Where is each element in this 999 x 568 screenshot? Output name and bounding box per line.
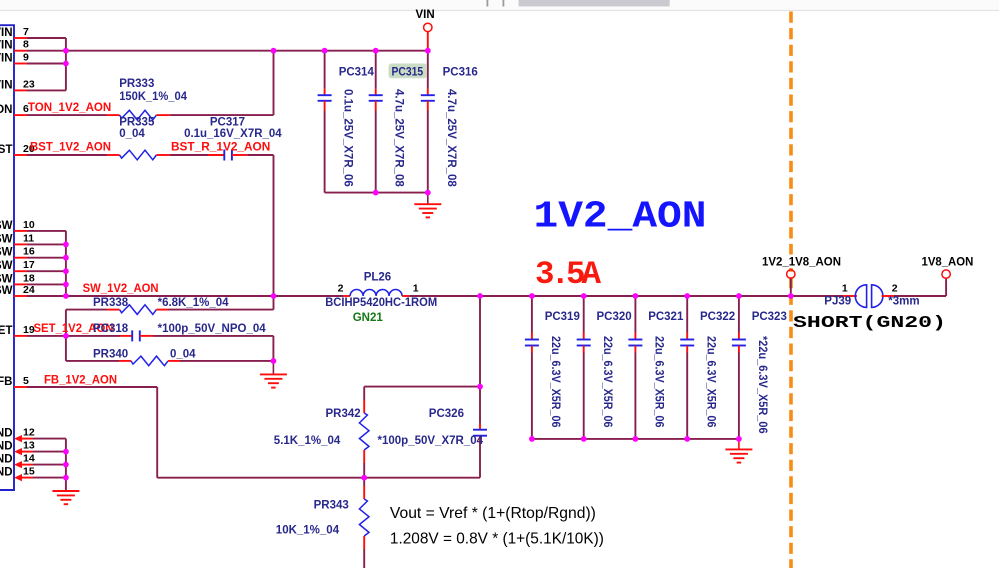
svg-text:10: 10 [23,219,35,231]
svg-text:*3mm: *3mm [888,296,919,308]
svg-text:PC323: PC323 [752,311,787,323]
svg-text:0.1u_16V_X7R_04: 0.1u_16V_X7R_04 [184,128,282,140]
svg-text:3.5A: 3.5A [535,256,601,293]
svg-text:PC320: PC320 [597,311,632,323]
svg-text:GND: GND [0,454,13,466]
svg-text:PC318: PC318 [93,323,129,335]
svg-text:11: 11 [23,232,34,244]
svg-text:PL26: PL26 [364,271,392,283]
svg-text:VIN: VIN [0,40,13,52]
svg-text:16: 16 [23,246,35,258]
svg-text:PR338: PR338 [93,297,129,309]
svg-text:24: 24 [23,284,35,296]
svg-text:BST_R_1V2_AON: BST_R_1V2_AON [171,142,270,154]
svg-text:PC315: PC315 [392,67,424,79]
svg-text:*100p_50V_NPO_04: *100p_50V_NPO_04 [158,323,267,335]
svg-text:PC321: PC321 [648,311,684,323]
svg-text:8: 8 [23,39,29,51]
svg-text:SET: SET [0,325,13,337]
svg-text:PC316: PC316 [443,67,478,79]
svg-text:VIN: VIN [0,27,13,39]
svg-text:PR333: PR333 [119,78,154,90]
svg-text:22u_6.3V_X5R_06: 22u_6.3V_X5R_06 [549,336,561,428]
svg-text:10K_1%_04: 10K_1%_04 [276,525,340,537]
svg-text:*100p_50V_X7R_04: *100p_50V_X7R_04 [378,435,484,447]
svg-text:TON: TON [0,104,13,116]
svg-text:1V8_AON: 1V8_AON [922,256,974,268]
svg-text:1V2_AON: 1V2_AON [534,196,707,239]
svg-text:PR342: PR342 [326,408,361,420]
svg-text:PC317: PC317 [210,116,245,128]
svg-text:1V2_1V8_AON: 1V2_1V8_AON [762,256,841,268]
svg-text:SW: SW [0,220,13,232]
svg-text:PR343: PR343 [314,500,349,512]
svg-text:7: 7 [23,26,29,38]
svg-text:0_04: 0_04 [119,128,145,140]
svg-text:13: 13 [23,440,35,452]
svg-text:GND: GND [0,428,13,440]
svg-text:GN21: GN21 [353,312,384,324]
svg-text:TON_1V2_AON: TON_1V2_AON [28,102,111,114]
svg-text:BCIHP5420HC-1ROM: BCIHP5420HC-1ROM [325,297,437,309]
svg-text:VIN: VIN [0,79,13,91]
svg-text:GND: GND [0,441,13,453]
svg-text:12: 12 [23,427,35,439]
svg-text:SHORT(GN20): SHORT(GN20) [793,313,946,332]
svg-text:SW_1V2_AON: SW_1V2_AON [83,283,159,295]
svg-text:150K_1%_04: 150K_1%_04 [119,91,187,103]
svg-text:Vout = Vref * (1+(Rtop/Rgnd)): Vout = Vref * (1+(Rtop/Rgnd)) [390,505,596,522]
svg-text:17: 17 [23,259,35,271]
svg-text:PC322: PC322 [700,311,735,323]
svg-text:GND: GND [0,467,13,479]
svg-text:PR340: PR340 [93,349,128,361]
svg-text:22u_6.3V_X5R_06: 22u_6.3V_X5R_06 [601,336,613,428]
svg-text:4.7u_25V_X7R_08: 4.7u_25V_X7R_08 [393,89,405,187]
svg-text:SW: SW [0,233,13,245]
svg-text:PR335: PR335 [119,116,155,128]
svg-text:14: 14 [23,453,35,465]
svg-text:VIN: VIN [0,53,13,65]
svg-text:1.208V = 0.8V * (1+(5.1K/10K)): 1.208V = 0.8V * (1+(5.1K/10K)) [390,531,604,548]
svg-text:SW: SW [0,273,13,285]
svg-text:5.1K_1%_04: 5.1K_1%_04 [274,435,341,447]
svg-text:5: 5 [23,375,29,387]
svg-text:22u_6.3V_X5R_06: 22u_6.3V_X5R_06 [653,336,665,428]
svg-text:2: 2 [338,283,344,295]
svg-text:*22u_6.3V_X5R_06: *22u_6.3V_X5R_06 [756,336,768,434]
svg-text:0_04: 0_04 [170,349,196,361]
svg-text:1: 1 [842,283,848,295]
svg-text:PC326: PC326 [429,408,464,420]
svg-text:BST_1V2_AON: BST_1V2_AON [30,142,111,154]
svg-text:2: 2 [892,283,898,295]
svg-text:SW: SW [0,260,13,272]
svg-text:9: 9 [23,52,29,64]
svg-text:22u_6.3V_X5R_06: 22u_6.3V_X5R_06 [704,336,716,428]
svg-text:FB: FB [0,376,13,388]
svg-text:BST: BST [0,144,13,156]
svg-text:PC319: PC319 [545,311,580,323]
svg-text:FB_1V2_AON: FB_1V2_AON [44,374,117,386]
svg-text:SW: SW [0,285,13,297]
svg-text:PJ39: PJ39 [824,296,851,308]
svg-text:0.1u_25V_X7R_06: 0.1u_25V_X7R_06 [342,89,354,187]
svg-text:18: 18 [23,272,35,284]
svg-text:PC314: PC314 [339,67,375,79]
svg-text:VIN: VIN [416,9,435,21]
svg-text:SW: SW [0,247,13,259]
svg-text:*6.8K_1%_04: *6.8K_1%_04 [158,297,230,309]
svg-text:4.7u_25V_X7R_08: 4.7u_25V_X7R_08 [445,89,457,187]
svg-text:15: 15 [23,466,35,478]
svg-text:1: 1 [413,283,419,295]
svg-text:23: 23 [23,78,35,90]
